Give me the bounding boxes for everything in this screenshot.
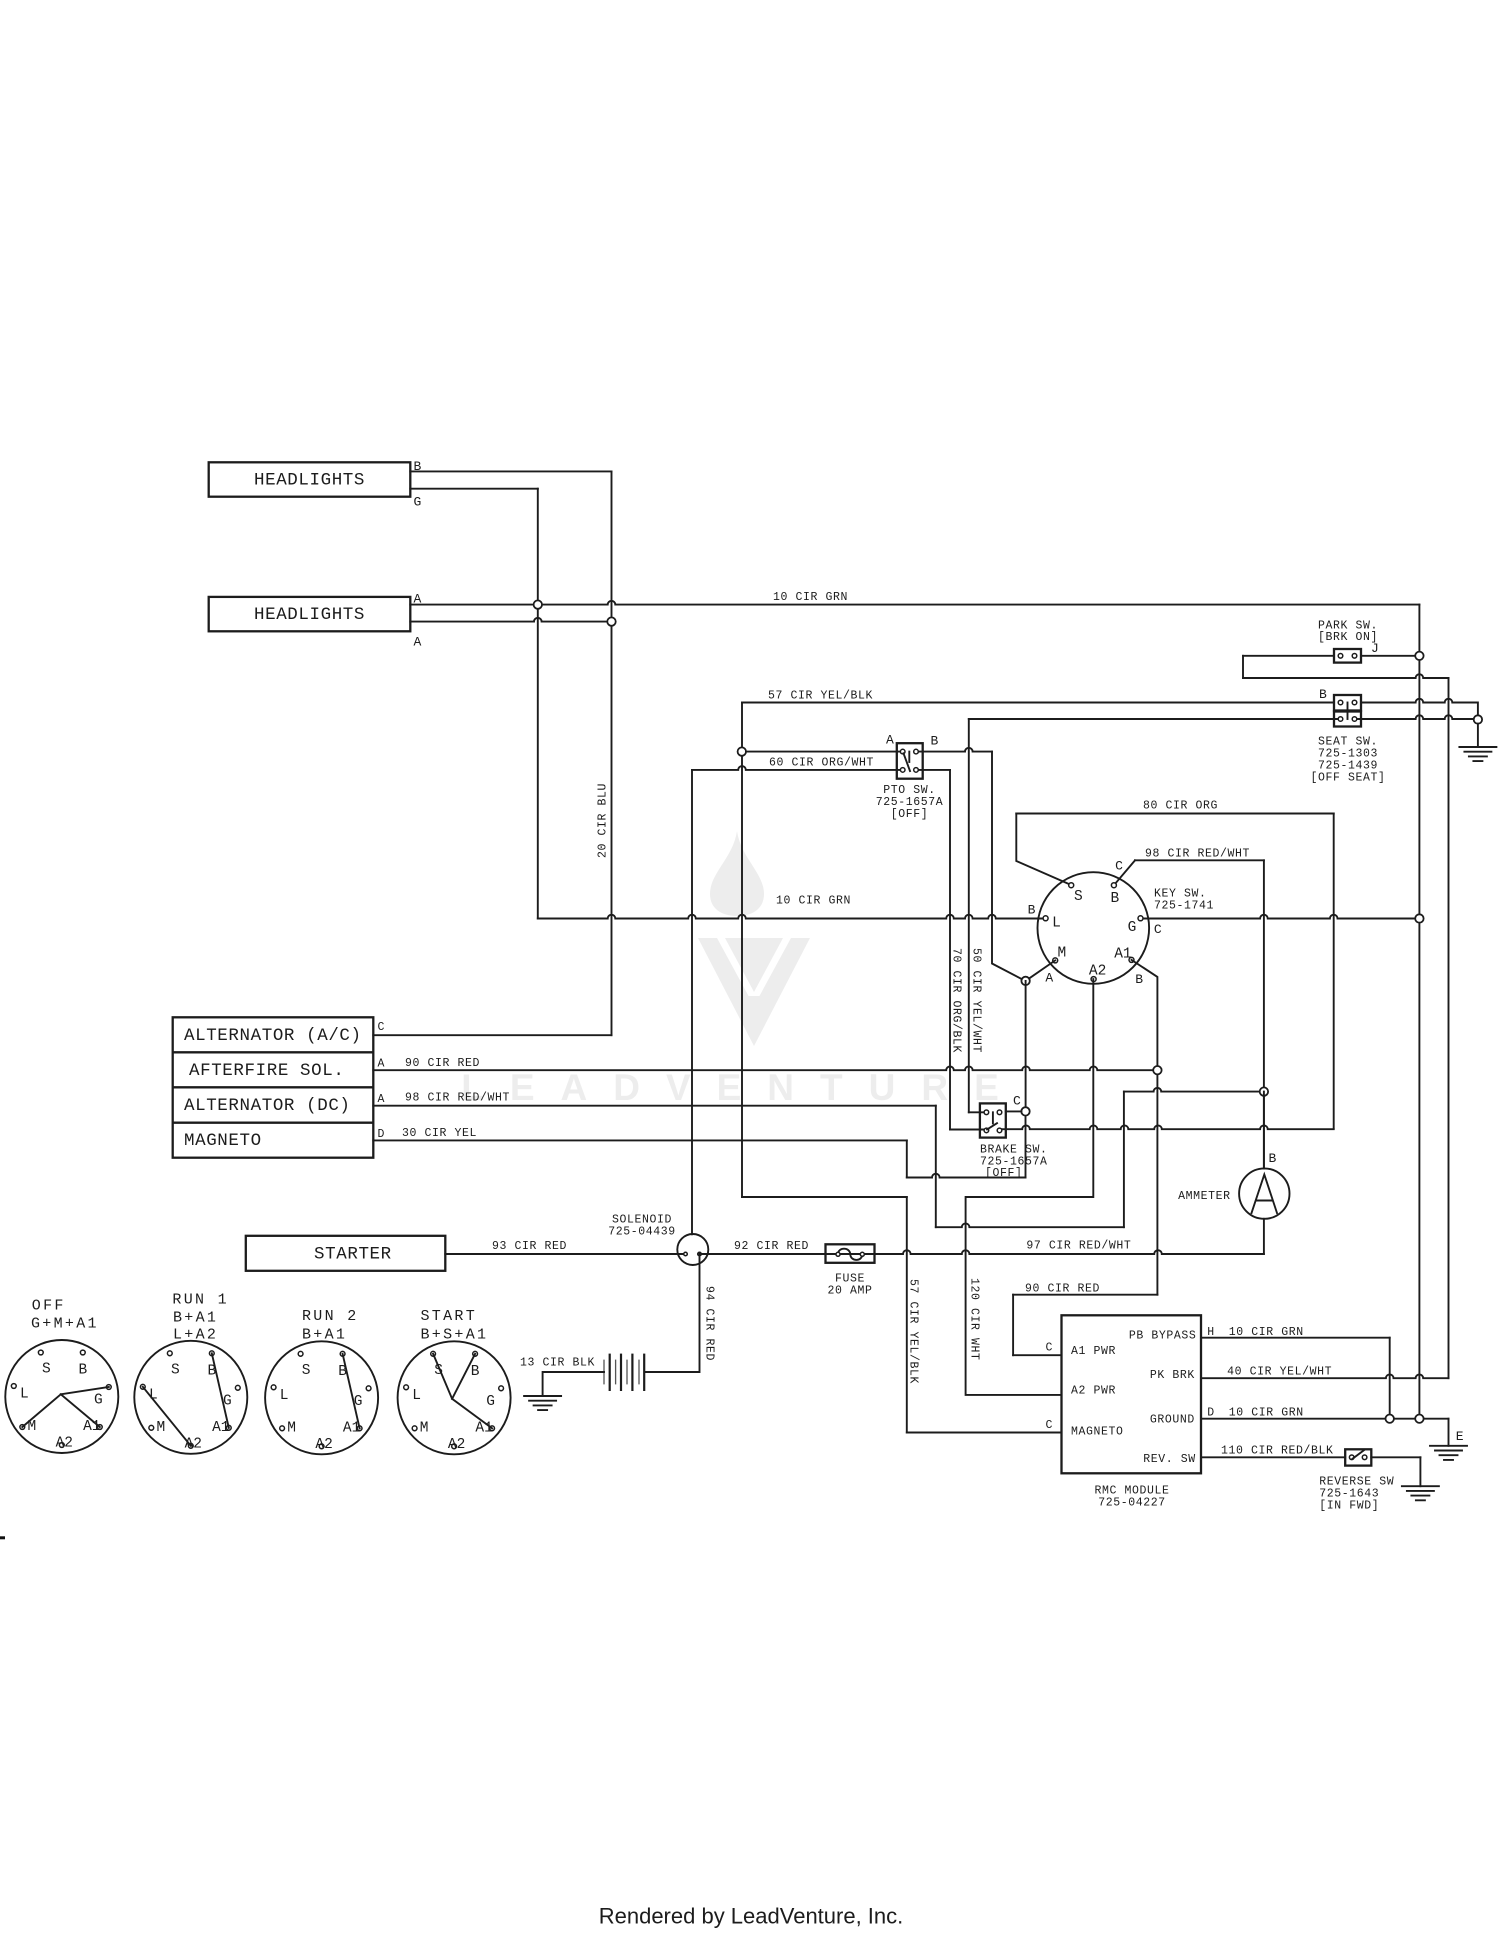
svg-text:MAGNETO: MAGNETO — [1071, 1425, 1124, 1438]
svg-text:B: B — [1135, 972, 1143, 987]
svg-text:10 CIR GRN: 10 CIR GRN — [1229, 1326, 1304, 1339]
svg-text:L: L — [412, 1388, 421, 1404]
svg-text:A: A — [1045, 971, 1053, 986]
node junction 60 CIR — [738, 747, 746, 755]
svg-text:[OFF SEAT]: [OFF SEAT] — [1310, 772, 1385, 785]
svg-text:MAGNETO: MAGNETO — [184, 1131, 262, 1151]
node ground spine junction — [1415, 1415, 1423, 1423]
svg-text:E: E — [1456, 1429, 1464, 1444]
node 98 junction — [1260, 1087, 1268, 1095]
wire 60 lower to solenoid — [692, 766, 903, 770]
wire 10 CIR GRN main right — [1144, 915, 1420, 919]
key switch KEY SW. body — [1038, 872, 1150, 984]
svg-text:Rendered by LeadVenture, Inc.: Rendered by LeadVenture, Inc. — [599, 1904, 904, 1929]
key position diagram START — [398, 1341, 511, 1454]
starter box STARTER — [246, 1236, 445, 1271]
wire reverse to ground — [1371, 1456, 1420, 1458]
svg-text:92 CIR RED: 92 CIR RED — [734, 1240, 809, 1253]
wire 98 vertical to ammeter — [1263, 860, 1265, 1168]
svg-text:[OFF]: [OFF] — [985, 1167, 1023, 1180]
svg-text:AMMETER: AMMETER — [1178, 1190, 1231, 1203]
svg-text:L: L — [149, 1387, 158, 1403]
svg-text:B: B — [207, 1363, 216, 1379]
key position diagram OFF — [5, 1340, 118, 1453]
key terminal M — [1053, 958, 1058, 963]
svg-text:B: B — [1319, 687, 1327, 702]
node A junction M — [1021, 977, 1029, 985]
svg-text:A1: A1 — [343, 1420, 360, 1436]
node seat ground junction — [1474, 715, 1482, 723]
svg-text:PB BYPASS: PB BYPASS — [1129, 1329, 1197, 1342]
wire 98 CIR RED/WHT from key B — [1114, 860, 1135, 885]
wire GROUND 10 CIR GRN — [1201, 1418, 1449, 1420]
svg-text:[OFF]: [OFF] — [891, 808, 929, 821]
svg-text:S: S — [1074, 889, 1083, 905]
wire to seat ground — [1477, 724, 1479, 747]
wire 13 CIR BLK — [543, 1372, 604, 1396]
svg-text:B+S+A1: B+S+A1 — [421, 1327, 489, 1344]
key terminal A2 — [1091, 977, 1096, 982]
rmc module box RMC MODULE — [1062, 1315, 1202, 1473]
svg-text:HEADLIGHTS: HEADLIGHTS — [254, 605, 365, 625]
svg-text:G: G — [223, 1393, 232, 1409]
svg-text:725-04439: 725-04439 — [608, 1226, 676, 1239]
key terminal L — [1043, 916, 1048, 921]
svg-text:B: B — [931, 734, 939, 749]
svg-text:S: S — [434, 1363, 443, 1379]
park switch PARK SW. — [1334, 649, 1361, 663]
svg-text:725-04227: 725-04227 — [1098, 1497, 1166, 1510]
svg-text:C: C — [378, 1021, 386, 1034]
svg-text:G+M+A1: G+M+A1 — [31, 1315, 99, 1332]
svg-text:[BRK ON]: [BRK ON] — [1318, 631, 1378, 644]
wire 80 CIR ORG — [1016, 814, 1072, 886]
svg-text:G: G — [354, 1394, 363, 1410]
svg-text:80 CIR ORG: 80 CIR ORG — [1143, 800, 1218, 813]
svg-text:D: D — [1207, 1407, 1215, 1420]
park switch right wire — [1361, 655, 1419, 657]
headlights box 1 — [209, 462, 411, 496]
wire 57 vertical — [741, 703, 743, 1198]
wire 50 CIR YEL/WHT vertical — [968, 719, 970, 1112]
svg-text:A2: A2 — [1089, 964, 1106, 980]
svg-text:B: B — [338, 1364, 347, 1380]
key position diagram RUN 2 — [265, 1341, 378, 1454]
svg-text:B: B — [1111, 891, 1120, 907]
key terminal B — [1111, 883, 1116, 888]
svg-text:D: D — [378, 1128, 386, 1141]
svg-text:S: S — [42, 1362, 51, 1378]
svg-text:H: H — [1207, 1326, 1215, 1339]
wire headlight B to 20 CIR BLU vertical — [410, 470, 611, 472]
wire key A2 stub 120 CIR WHT — [966, 979, 1094, 1395]
wire 10 CIR GRN main left — [538, 915, 1043, 919]
svg-text:57 CIR YEL/BLK: 57 CIR YEL/BLK — [907, 1279, 920, 1384]
node J junction — [1415, 652, 1423, 660]
wire 10 CIR GRN right spine — [1418, 605, 1420, 1419]
svg-text:B: B — [1269, 1151, 1277, 1166]
svg-text:A: A — [414, 635, 422, 650]
wire 70 CIR ORG/BLK — [916, 769, 950, 771]
key terminal S — [1069, 883, 1074, 888]
svg-text:LEADVENTURE: LEADVENTURE — [461, 1067, 1025, 1108]
watermark V logo — [698, 938, 810, 1046]
svg-text:20 CIR BLU: 20 CIR BLU — [597, 783, 610, 858]
svg-text:50 CIR YEL/WHT: 50 CIR YEL/WHT — [970, 948, 983, 1053]
park switch feed wire — [1243, 655, 1334, 657]
svg-text:A2 PWR: A2 PWR — [1071, 1385, 1116, 1398]
wire 40 CIR YEL/WHT vertical — [1448, 678, 1450, 1378]
wire 80 CIR row to brake — [1000, 1125, 1334, 1129]
svg-text:98 CIR RED/WHT: 98 CIR RED/WHT — [405, 1091, 510, 1104]
wire 92 CIR RED — [701, 1250, 1264, 1254]
wire alternator AC C — [373, 1034, 611, 1036]
svg-text:40 CIR YEL/WHT: 40 CIR YEL/WHT — [1227, 1366, 1332, 1379]
svg-text:L+A2: L+A2 — [173, 1327, 218, 1344]
wire REV SW 110 CIR RED/BLK — [1201, 1456, 1345, 1458]
svg-text:M: M — [1057, 946, 1066, 962]
wire brake C vertical — [1025, 981, 1027, 1112]
svg-text:A2: A2 — [448, 1437, 465, 1453]
wire key A1 stub — [1132, 960, 1158, 1295]
svg-text:60 CIR ORG/WHT: 60 CIR ORG/WHT — [769, 756, 874, 769]
ground reverse switch — [1402, 1486, 1439, 1500]
wire headlight G — [410, 488, 538, 490]
svg-text:L: L — [280, 1388, 289, 1404]
battery — [604, 1354, 644, 1391]
svg-text:B+A1: B+A1 — [302, 1327, 347, 1344]
svg-text:725-1741: 725-1741 — [1154, 900, 1214, 913]
svg-text:RUN 1: RUN 1 — [172, 1292, 229, 1309]
wire ammeter bottom 97 — [1263, 1219, 1265, 1254]
pto switch PTO SW. — [897, 743, 923, 779]
svg-text:GROUND: GROUND — [1150, 1414, 1195, 1427]
svg-text:OFF: OFF — [32, 1298, 66, 1315]
svg-text:G: G — [94, 1393, 103, 1409]
ground rmc — [1430, 1446, 1467, 1460]
svg-text:L: L — [20, 1387, 29, 1403]
svg-text:M: M — [27, 1419, 36, 1435]
svg-text:RUN 2: RUN 2 — [302, 1308, 359, 1325]
svg-text:A1: A1 — [1114, 947, 1131, 963]
wire 57 CIR YEL/BLK horizontal — [742, 702, 1334, 704]
svg-text:120 CIR WHT: 120 CIR WHT — [968, 1278, 981, 1361]
ammeter AMMETER — [1239, 1168, 1289, 1218]
svg-text:G: G — [1128, 920, 1137, 936]
svg-text:A1 PWR: A1 PWR — [1071, 1345, 1116, 1358]
svg-text:A2: A2 — [185, 1436, 202, 1452]
svg-text:G: G — [486, 1394, 495, 1410]
svg-text:ALTERNATOR (A/C): ALTERNATOR (A/C) — [184, 1026, 362, 1046]
svg-text:REV. SW: REV. SW — [1143, 1453, 1196, 1466]
key terminal G — [1138, 916, 1143, 921]
wire 57 CIR YEL/BLK lower — [742, 1196, 907, 1198]
wire PK BRK 40 CIR YEL/WHT — [1201, 1374, 1449, 1378]
svg-text:STARTER: STARTER — [314, 1244, 392, 1264]
key position diagram RUN 1 — [134, 1341, 247, 1454]
seat switch lower left wire — [969, 718, 1341, 720]
svg-text:C: C — [1115, 859, 1123, 874]
ground seat switch — [1459, 747, 1496, 761]
svg-text:90 CIR RED: 90 CIR RED — [1025, 1282, 1100, 1295]
seat switch SEAT SW. — [1334, 695, 1361, 711]
svg-text:30 CIR YEL: 30 CIR YEL — [402, 1127, 477, 1140]
svg-text:10 CIR GRN: 10 CIR GRN — [1229, 1407, 1304, 1420]
node junction top GRN — [534, 600, 542, 608]
svg-text:70 CIR ORG/BLK: 70 CIR ORG/BLK — [950, 948, 963, 1053]
svg-text:94 CIR RED: 94 CIR RED — [703, 1286, 716, 1361]
svg-text:M: M — [420, 1420, 429, 1436]
svg-text:A1: A1 — [475, 1420, 492, 1436]
wire 10 CIR GRN top — [410, 601, 1419, 605]
solenoid SOLENOID — [677, 1234, 708, 1265]
wire headlight G vertical — [537, 489, 539, 919]
svg-text:A2: A2 — [56, 1436, 73, 1452]
svg-text:L: L — [1052, 916, 1061, 932]
svg-text:C: C — [1045, 1342, 1053, 1355]
svg-text:20 AMP: 20 AMP — [827, 1285, 872, 1298]
fuse FUSE 20 AMP — [826, 1244, 875, 1263]
svg-text:57 CIR YEL/BLK: 57 CIR YEL/BLK — [768, 689, 873, 702]
svg-text:HEADLIGHTS: HEADLIGHTS — [254, 471, 365, 491]
brake switch BRAKE SW. — [980, 1103, 1006, 1137]
wire 90 CIR RED to RMC A1 — [1013, 1294, 1157, 1296]
svg-text:B: B — [1028, 903, 1036, 918]
svg-text:93 CIR RED: 93 CIR RED — [492, 1240, 567, 1253]
node ammeter top junction wire — [1263, 1092, 1265, 1169]
key terminal A1 — [1129, 957, 1134, 962]
wire 93 CIR RED — [445, 1253, 684, 1255]
svg-text:S: S — [302, 1363, 311, 1379]
svg-text:M: M — [287, 1420, 296, 1436]
wire brake C to junction — [1006, 1110, 1022, 1112]
park switch return wire — [1243, 674, 1449, 678]
svg-text:C: C — [1154, 922, 1162, 937]
wire 50 to brake A — [969, 1111, 984, 1113]
svg-text:M: M — [156, 1420, 165, 1436]
wire 94 CIR RED — [645, 1254, 700, 1372]
wire 90 CIR RED afterfire — [373, 1066, 1157, 1070]
wire PTO B output — [916, 748, 992, 752]
wire 60 CIR ORG/WHT — [746, 751, 903, 753]
svg-text:10 CIR GRN: 10 CIR GRN — [773, 591, 848, 604]
wire PB BYPASS 10 CIR GRN — [1201, 1337, 1390, 1339]
svg-text:13 CIR BLK: 13 CIR BLK — [520, 1356, 595, 1369]
svg-text:PK BRK: PK BRK — [1150, 1369, 1195, 1382]
svg-text:A1: A1 — [212, 1420, 229, 1436]
svg-text:110 CIR RED/BLK: 110 CIR RED/BLK — [1221, 1445, 1334, 1458]
wire key M stub — [1026, 960, 1056, 981]
svg-text:A: A — [886, 733, 894, 748]
svg-text:START: START — [421, 1308, 478, 1325]
node PB bypass junction — [1386, 1415, 1394, 1423]
svg-text:ALTERNATOR (DC): ALTERNATOR (DC) — [184, 1096, 351, 1116]
ground battery — [524, 1396, 561, 1410]
node 10 GRN spine junction — [1415, 914, 1423, 922]
seat switch lower right wire — [1355, 715, 1478, 719]
node brake C junction — [1021, 1107, 1029, 1115]
wire headlight A lower — [410, 618, 611, 622]
svg-text:A1: A1 — [83, 1419, 100, 1435]
wire 20 CIR BLU vertical — [611, 471, 613, 1035]
svg-text:10 CIR GRN: 10 CIR GRN — [776, 894, 851, 907]
alternator stack box — [173, 1017, 374, 1157]
svg-text:B+A1: B+A1 — [173, 1309, 218, 1326]
svg-text:A: A — [378, 1093, 386, 1106]
wire 98 CIR RED/WHT alternator — [373, 1105, 936, 1107]
svg-text:A: A — [378, 1058, 386, 1071]
svg-text:98 CIR RED/WHT: 98 CIR RED/WHT — [1145, 847, 1250, 860]
node 90 junction — [1153, 1066, 1161, 1074]
seat switch top right wire — [1361, 699, 1474, 703]
svg-text:90 CIR RED: 90 CIR RED — [405, 1057, 480, 1070]
svg-text:A2: A2 — [315, 1437, 332, 1453]
svg-text:97 CIR RED/WHT: 97 CIR RED/WHT — [1026, 1239, 1131, 1252]
svg-text:S: S — [171, 1362, 180, 1378]
svg-text:[IN FWD]: [IN FWD] — [1319, 1500, 1379, 1513]
wire 30 CIR YEL magneto — [373, 1139, 907, 1141]
svg-text:AFTERFIRE SOL.: AFTERFIRE SOL. — [189, 1061, 344, 1081]
reverse switch REVERSE SW — [1345, 1449, 1371, 1465]
svg-text:C: C — [1013, 1094, 1021, 1109]
svg-text:G: G — [414, 495, 422, 510]
headlights box 2 — [209, 597, 411, 631]
svg-text:B: B — [78, 1363, 87, 1379]
svg-text:C: C — [1045, 1419, 1053, 1432]
registration mark left — [0, 1536, 5, 1539]
svg-text:B: B — [471, 1364, 480, 1380]
node junction BLU — [607, 617, 615, 625]
watermark flame logo — [710, 831, 764, 916]
wire 98 row2 — [1124, 1088, 1264, 1092]
